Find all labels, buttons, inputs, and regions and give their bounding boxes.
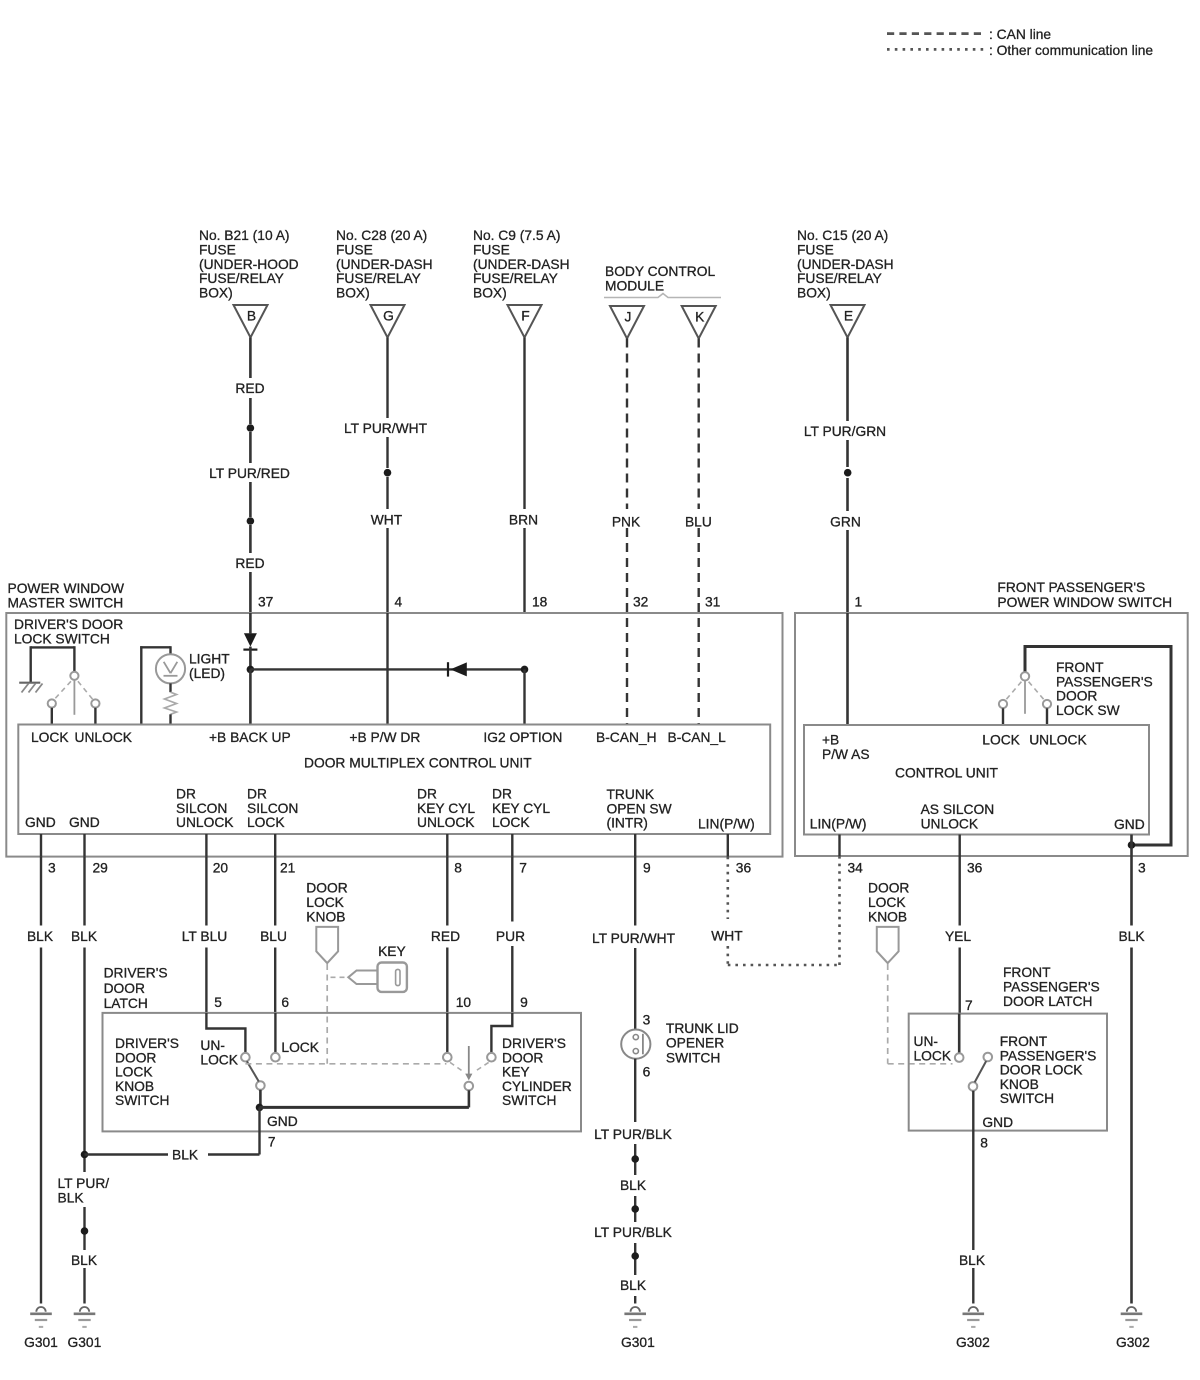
wire P/W DR into unit bbox=[386, 613, 388, 725]
label GND (FP latch) bbox=[982, 1115, 1013, 1130]
wire label LT PUR/RED bbox=[209, 466, 290, 481]
FP door lock switch dashed throw right bbox=[1029, 682, 1044, 700]
connector triangle K bbox=[682, 306, 716, 339]
svg-text:RED: RED bbox=[431, 929, 460, 944]
svg-text:LOCK: LOCK bbox=[200, 1053, 238, 1068]
wire label PNK bbox=[612, 515, 641, 530]
FP door lock switch LOCK contact bbox=[999, 700, 1007, 708]
junction trunk wire 3 bbox=[631, 1252, 639, 1260]
svg-text:LT PUR/WHT: LT PUR/WHT bbox=[592, 931, 676, 946]
svg-text:LT PUR/RED: LT PUR/RED bbox=[209, 466, 290, 481]
pin 21 label bbox=[280, 861, 295, 876]
ground symbol G301 (pin3) bbox=[30, 1307, 52, 1327]
svg-text:DOOR: DOOR bbox=[306, 881, 347, 896]
svg-text:KNOB: KNOB bbox=[868, 909, 907, 924]
diode in backup link bbox=[448, 662, 467, 676]
svg-text:LT PUR/WHT: LT PUR/WHT bbox=[344, 421, 428, 436]
svg-text:9: 9 bbox=[643, 861, 651, 876]
svg-text:G: G bbox=[383, 309, 394, 324]
svg-text:BLK: BLK bbox=[1118, 929, 1145, 944]
pin 7 label (latch GND) bbox=[268, 1135, 276, 1150]
svg-text:PASSENGER'S: PASSENGER'S bbox=[1003, 979, 1100, 994]
svg-text:LOCK: LOCK bbox=[492, 815, 530, 830]
svg-text:UNLOCK: UNLOCK bbox=[75, 730, 133, 745]
svg-text:UN-: UN- bbox=[914, 1034, 939, 1049]
wire pin 9 stem bbox=[634, 834, 636, 857]
key cylinder dashed throw left bbox=[450, 1062, 463, 1071]
ground name G302 (2) bbox=[1116, 1335, 1150, 1350]
wire label BLU (top) bbox=[685, 515, 712, 530]
wire PUR (pin7 to latch) bbox=[511, 857, 513, 1013]
fuse C28 label bbox=[336, 228, 433, 301]
svg-text:7: 7 bbox=[519, 861, 527, 876]
wire label BLK (pin3) bbox=[27, 929, 54, 944]
FP door lock switch UNLOCK contact bbox=[1043, 700, 1051, 708]
svg-text:G302: G302 bbox=[956, 1335, 990, 1350]
wire GND stem right box bbox=[1130, 835, 1133, 857]
wire fuse B to pin 37 bbox=[249, 338, 252, 614]
svg-text:KEY CYL: KEY CYL bbox=[492, 801, 550, 816]
svg-text:SWITCH: SWITCH bbox=[666, 1050, 720, 1065]
svg-text:DR: DR bbox=[492, 787, 512, 802]
svg-text:BOX): BOX) bbox=[473, 286, 507, 301]
diode on +B BACK UP feed bbox=[243, 613, 257, 669]
junction on wire G bbox=[384, 469, 392, 477]
wire label LT PUR/WHT (bottom) bbox=[592, 931, 676, 946]
svg-text:RED: RED bbox=[235, 556, 264, 571]
driver's door latch box bbox=[103, 1013, 582, 1132]
svg-text:FUSE: FUSE bbox=[473, 242, 510, 257]
pin 7 label bbox=[519, 861, 527, 876]
svg-text:3: 3 bbox=[48, 861, 56, 876]
svg-text:TRUNK LID: TRUNK LID bbox=[666, 1021, 739, 1036]
pin name AS SILCON UNLOCK bbox=[921, 802, 995, 832]
key cylinder dashed throw right bbox=[475, 1062, 489, 1071]
FP door lock switch neutral blade bbox=[1024, 681, 1026, 714]
pin name DR SILCON LOCK bbox=[247, 787, 298, 831]
light LED text bbox=[189, 652, 230, 681]
svg-text:LT PUR/GRN: LT PUR/GRN bbox=[804, 424, 886, 439]
pin 18 label bbox=[532, 595, 548, 610]
svg-text:BLK: BLK bbox=[58, 1190, 85, 1205]
pin name LOCK (right) bbox=[982, 733, 1020, 748]
svg-text:GND: GND bbox=[982, 1115, 1013, 1130]
wire pin6 to LOCK contact bbox=[274, 1013, 276, 1053]
svg-text:BLK: BLK bbox=[27, 929, 54, 944]
trunk lid opener switch label bbox=[666, 1021, 739, 1065]
driver latch common contact bbox=[256, 1081, 265, 1090]
wire label BLK (FP) bbox=[959, 1253, 986, 1268]
wire label WHT (top) bbox=[371, 513, 403, 528]
svg-text:BLK: BLK bbox=[620, 1178, 647, 1193]
junction on wire B (2) bbox=[247, 517, 255, 525]
svg-text:LOCK: LOCK bbox=[31, 730, 69, 745]
svg-text:FRONT: FRONT bbox=[1056, 660, 1104, 675]
svg-text:UNLOCK: UNLOCK bbox=[417, 815, 475, 830]
control unit title (right) bbox=[895, 766, 999, 781]
svg-text:DOOR: DOOR bbox=[104, 981, 145, 996]
svg-text:29: 29 bbox=[93, 861, 109, 876]
svg-text:LOCK: LOCK bbox=[306, 895, 344, 910]
wire label BRN bbox=[509, 513, 538, 528]
svg-text:+B: +B bbox=[822, 733, 839, 748]
svg-text:UNLOCK: UNLOCK bbox=[1029, 733, 1087, 748]
pin 20 label bbox=[213, 861, 229, 876]
svg-text:G301: G301 bbox=[24, 1335, 58, 1350]
CAN wire J (B-CAN_H) dashed bbox=[626, 339, 628, 725]
wire trunk switch to ground bbox=[634, 1059, 636, 1304]
svg-text:LIGHT: LIGHT bbox=[189, 652, 230, 667]
wire latch pin7 down bbox=[258, 1107, 260, 1154]
wire BLK (right box GND) bbox=[1130, 856, 1133, 1304]
wire LT BLU (pin20 to latch) bbox=[205, 857, 207, 1013]
wire pin 8 stem bbox=[446, 834, 448, 857]
wire label BLK (pin29) bbox=[71, 929, 98, 944]
pin 37 label bbox=[258, 595, 273, 610]
pin 36 label right bbox=[967, 861, 983, 876]
svg-text:WHT: WHT bbox=[371, 513, 403, 528]
svg-text:B-CAN_H: B-CAN_H bbox=[596, 730, 657, 745]
pin name DR SILCON UNLOCK bbox=[176, 787, 234, 831]
svg-text:7: 7 bbox=[965, 998, 973, 1013]
svg-text:36: 36 bbox=[736, 861, 752, 876]
door lock knob symbol (FP) bbox=[877, 927, 899, 963]
svg-text:LOCK: LOCK bbox=[281, 1040, 319, 1055]
ground name G301 (2) bbox=[68, 1335, 102, 1350]
svg-text:32: 32 bbox=[633, 595, 648, 610]
svg-text:UN-: UN- bbox=[200, 1038, 225, 1053]
svg-text:KEY: KEY bbox=[502, 1065, 530, 1080]
wire label BLK (trunk 1) bbox=[620, 1178, 647, 1193]
svg-text:BOX): BOX) bbox=[797, 286, 831, 301]
pin 9 label bbox=[643, 861, 651, 876]
wire fuse F to pin 18 bbox=[523, 338, 525, 614]
svg-text:POWER WINDOW SWITCH: POWER WINDOW SWITCH bbox=[997, 595, 1172, 610]
pin 32 label bbox=[633, 595, 648, 610]
svg-text:AS SILCON: AS SILCON bbox=[921, 802, 995, 817]
wire FP LOCK contact to unit bbox=[1002, 708, 1004, 725]
svg-text:GND: GND bbox=[25, 815, 56, 830]
GND bus wire (driver latch) bbox=[260, 1090, 469, 1107]
svg-text:LATCH: LATCH bbox=[104, 996, 148, 1011]
driver's door key cylinder switch label bbox=[502, 1036, 572, 1108]
pin name B-CAN_L bbox=[668, 730, 727, 745]
key symbol bbox=[348, 963, 407, 992]
power window master switch title bbox=[8, 581, 125, 611]
svg-text:LOCK SWITCH: LOCK SWITCH bbox=[14, 632, 110, 647]
wire latch GND to BLK bus bbox=[85, 1153, 260, 1155]
svg-text:IG2 OPTION: IG2 OPTION bbox=[483, 730, 562, 745]
LED bracket wire bbox=[140, 646, 170, 724]
svg-text:DR: DR bbox=[247, 787, 267, 802]
switch feed wire (right box) bbox=[1025, 645, 1171, 845]
pin 3 label right bbox=[1138, 861, 1146, 876]
pin name +B P/W DR bbox=[349, 730, 420, 745]
door lock knob symbol (driver) bbox=[316, 927, 338, 963]
wire label RED (1) bbox=[235, 381, 264, 396]
svg-text:B-CAN_L: B-CAN_L bbox=[668, 730, 727, 745]
wire label LT PUR/GRN bbox=[804, 424, 886, 439]
svg-text:FRONT: FRONT bbox=[1003, 965, 1051, 980]
svg-text:No. C9 (7.5 A): No. C9 (7.5 A) bbox=[473, 228, 560, 243]
legend other-communication-line text bbox=[989, 43, 1153, 58]
fuse G connector triangle bbox=[371, 305, 405, 338]
svg-text:G302: G302 bbox=[1116, 1335, 1150, 1350]
svg-text:LOCK: LOCK bbox=[115, 1065, 153, 1080]
wire label LT PUR/BLK (pin29) bbox=[58, 1176, 110, 1205]
svg-text:OPEN SW: OPEN SW bbox=[607, 801, 672, 816]
svg-text:BOX): BOX) bbox=[199, 286, 233, 301]
svg-text:: CAN line: : CAN line bbox=[989, 27, 1051, 42]
fuse B connector triangle bbox=[234, 305, 268, 338]
power window master switch box bbox=[6, 613, 782, 857]
front passenger's door latch box bbox=[909, 1014, 1107, 1131]
svg-text:MODULE: MODULE bbox=[605, 278, 664, 293]
fuse B21 label bbox=[199, 228, 299, 301]
front passenger's power window switch title bbox=[997, 580, 1172, 610]
svg-text:LT PUR/BLK: LT PUR/BLK bbox=[594, 1127, 672, 1142]
svg-text:3: 3 bbox=[1138, 861, 1146, 876]
pin 5 label bbox=[214, 995, 222, 1010]
pin 7 label (FP latch) bbox=[965, 998, 973, 1013]
label LOCK (driver latch) bbox=[281, 1040, 319, 1055]
front passenger's power window switch box bbox=[795, 613, 1188, 856]
FP latch second contact bbox=[984, 1053, 993, 1062]
svg-text:UNLOCK: UNLOCK bbox=[921, 817, 979, 832]
svg-text:DRIVER'S DOOR: DRIVER'S DOOR bbox=[14, 617, 123, 632]
legend CAN line text bbox=[989, 27, 1051, 42]
svg-text:21: 21 bbox=[280, 861, 295, 876]
svg-text:34: 34 bbox=[848, 861, 864, 876]
svg-text:GND: GND bbox=[69, 815, 100, 830]
svg-text:BLK: BLK bbox=[71, 1253, 98, 1268]
CAN wire K (B-CAN_L) dashed bbox=[698, 339, 700, 725]
driver's door lock switch label bbox=[14, 617, 123, 647]
wire pin 3 stem bbox=[40, 834, 42, 857]
svg-text:8: 8 bbox=[980, 1136, 988, 1151]
driver's door lock switch common contact bbox=[70, 672, 78, 680]
wire fuse G to pin 4 bbox=[386, 338, 388, 614]
pin name UNLOCK bbox=[75, 730, 133, 745]
svg-text:5: 5 bbox=[214, 995, 222, 1010]
svg-text:DRIVER'S: DRIVER'S bbox=[502, 1036, 566, 1051]
junction pin29 lower bbox=[81, 1227, 89, 1235]
svg-text:YEL: YEL bbox=[945, 929, 971, 944]
svg-text:F: F bbox=[521, 309, 529, 324]
svg-text:+B BACK UP: +B BACK UP bbox=[209, 730, 291, 745]
wire FP common to ground bbox=[972, 1091, 974, 1304]
wire pin10 to key contact bbox=[446, 1013, 448, 1053]
svg-text:P/W AS: P/W AS bbox=[822, 747, 870, 762]
junction GND bus (driver latch) bbox=[256, 1104, 264, 1112]
pin name DR KEY CYL LOCK bbox=[492, 787, 550, 831]
wire YEL (pin36 to FP latch) bbox=[959, 856, 961, 1014]
svg-text:DRIVER'S: DRIVER'S bbox=[115, 1036, 179, 1051]
wire fuse E to pin 1 bbox=[846, 338, 849, 614]
wire pin9 to key contact bbox=[491, 1013, 512, 1053]
svg-text:: Other communication line: : Other communication line bbox=[989, 43, 1153, 58]
driver's door lock switch bracket wire bbox=[31, 646, 75, 683]
front passenger's door lock knob switch label bbox=[1000, 1034, 1097, 1106]
FP latch common contact bbox=[969, 1082, 978, 1091]
svg-text:SWITCH: SWITCH bbox=[115, 1093, 169, 1108]
svg-text:CYLINDER: CYLINDER bbox=[502, 1079, 572, 1094]
wire label BLK (latch GND) bbox=[172, 1148, 199, 1163]
junction GND right box bbox=[1128, 841, 1136, 849]
svg-text:BODY CONTROL: BODY CONTROL bbox=[605, 264, 715, 279]
pin 10 label bbox=[456, 995, 472, 1010]
pin name DR KEY CYL UNLOCK bbox=[417, 787, 475, 831]
svg-text:36: 36 bbox=[967, 861, 983, 876]
svg-text:GND: GND bbox=[267, 1114, 298, 1129]
pin name IG2 OPTION bbox=[483, 730, 562, 745]
pin 31 label bbox=[705, 595, 720, 610]
svg-text:GND: GND bbox=[1114, 817, 1145, 832]
svg-text:MASTER SWITCH: MASTER SWITCH bbox=[8, 596, 124, 611]
wire label BLK (trunk 2) bbox=[620, 1278, 647, 1293]
junction IG2 node bbox=[521, 666, 529, 674]
pin name TRUNK OPEN SW (INTR) bbox=[607, 787, 672, 831]
wire label LT PUR/WHT (top) bbox=[344, 421, 428, 436]
svg-text:DOOR LOCK: DOOR LOCK bbox=[1000, 1063, 1084, 1078]
svg-text:KNOB: KNOB bbox=[306, 909, 345, 924]
key label bbox=[378, 944, 406, 959]
svg-text:(INTR): (INTR) bbox=[607, 816, 648, 831]
wire pin 36 stem right bbox=[959, 835, 961, 857]
wire label BLK (pin29 lower) bbox=[71, 1253, 98, 1268]
svg-text:LIN(P/W): LIN(P/W) bbox=[698, 817, 755, 832]
svg-text:No. C28 (20 A): No. C28 (20 A) bbox=[336, 228, 427, 243]
label UN-LOCK (driver latch) bbox=[200, 1038, 238, 1068]
svg-text:10: 10 bbox=[456, 995, 472, 1010]
driver's door lock switch LOCK contact bbox=[48, 699, 56, 707]
key dashed link bbox=[331, 976, 347, 978]
svg-text:FRONT: FRONT bbox=[1000, 1034, 1048, 1049]
svg-text:LOCK: LOCK bbox=[868, 895, 906, 910]
pin name LOCK bbox=[31, 730, 69, 745]
wire pin 1 into unit bbox=[846, 613, 849, 725]
wire pin5 to UNLOCK contact bbox=[206, 1013, 245, 1053]
pin 4 label bbox=[395, 595, 403, 610]
door multiplex control unit title bbox=[304, 756, 532, 771]
chassis ground (driver's door lock switch) bbox=[19, 683, 42, 693]
door lock knob label (driver) bbox=[306, 881, 347, 925]
svg-text:DR: DR bbox=[417, 787, 437, 802]
wire label LT PUR/BLK (trunk 1) bbox=[594, 1127, 672, 1142]
wire backup link horizontal bbox=[250, 668, 524, 670]
svg-text:DOOR: DOOR bbox=[1056, 689, 1097, 704]
pin 3 label bbox=[48, 861, 56, 876]
wire label BLK (right) bbox=[1118, 929, 1145, 944]
svg-text:J: J bbox=[625, 310, 632, 325]
FP door lock switch common contact bbox=[1021, 672, 1029, 680]
svg-text:KNOB: KNOB bbox=[1000, 1077, 1039, 1092]
ground symbol G302 (FP latch) bbox=[963, 1307, 985, 1327]
front passenger's door latch title bbox=[1003, 965, 1100, 1009]
light LED symbol bbox=[156, 654, 185, 683]
wire IG2 into unit bbox=[523, 669, 525, 724]
pin name GND (3) bbox=[25, 815, 56, 830]
svg-text:BOX): BOX) bbox=[336, 286, 370, 301]
svg-text:No. C15 (20 A): No. C15 (20 A) bbox=[797, 228, 888, 243]
wire pin 20 stem bbox=[205, 834, 207, 857]
connector triangle J bbox=[610, 306, 644, 339]
svg-text:GRN: GRN bbox=[830, 515, 861, 530]
door multiplex control unit box bbox=[18, 725, 770, 835]
svg-text:DOOR MULTIPLEX CONTROL UNIT: DOOR MULTIPLEX CONTROL UNIT bbox=[304, 756, 532, 771]
pin 29 label bbox=[93, 861, 109, 876]
svg-text:KNOB: KNOB bbox=[115, 1079, 154, 1094]
driver's door lock switch dashed throw right bbox=[78, 681, 93, 699]
wire LT PUR/WHT (pin9 down) bbox=[634, 857, 636, 1030]
ground name G301 (1) bbox=[24, 1335, 58, 1350]
svg-text:FRONT PASSENGER'S: FRONT PASSENGER'S bbox=[997, 580, 1145, 595]
svg-text:BLK: BLK bbox=[620, 1278, 647, 1293]
svg-text:G301: G301 bbox=[68, 1335, 102, 1350]
wire label WHT (LIN) bbox=[711, 929, 743, 944]
svg-text:RED: RED bbox=[235, 381, 264, 396]
wire label PUR bbox=[496, 929, 525, 944]
pin 1 label bbox=[855, 595, 863, 610]
svg-text:PUR: PUR bbox=[496, 929, 525, 944]
svg-text:LOCK: LOCK bbox=[914, 1049, 952, 1064]
pin 6 label bbox=[281, 995, 289, 1010]
svg-text:PASSENGER'S: PASSENGER'S bbox=[1056, 674, 1153, 689]
driver latch LOCK contact bbox=[271, 1053, 280, 1062]
svg-text:FUSE/RELAY: FUSE/RELAY bbox=[199, 271, 284, 286]
svg-text:7: 7 bbox=[268, 1135, 276, 1150]
junction trunk wire 1 bbox=[631, 1155, 639, 1163]
svg-text:BLU: BLU bbox=[260, 929, 287, 944]
driver key cyl UNLOCK contact bbox=[443, 1053, 452, 1062]
svg-text:FUSE/RELAY: FUSE/RELAY bbox=[797, 271, 882, 286]
pin 3 label (trunk) bbox=[643, 1013, 651, 1028]
fuse C9 label bbox=[473, 228, 570, 301]
wire RED (pin8 to latch) bbox=[446, 857, 448, 1013]
junction +B BACK UP node bbox=[247, 666, 255, 674]
svg-text:6: 6 bbox=[643, 1064, 651, 1079]
svg-text:KEY: KEY bbox=[378, 944, 406, 959]
wire pin 21 stem bbox=[274, 834, 276, 857]
svg-text:1: 1 bbox=[855, 595, 863, 610]
svg-text:E: E bbox=[844, 309, 853, 324]
svg-text:(UNDER-DASH: (UNDER-DASH bbox=[797, 257, 894, 272]
pin name GND (29) bbox=[69, 815, 100, 830]
svg-text:LOCK: LOCK bbox=[982, 733, 1020, 748]
svg-text:UNLOCK: UNLOCK bbox=[176, 815, 234, 830]
junction on wire E bbox=[844, 469, 852, 477]
wire BLU (pin21 to latch) bbox=[274, 857, 276, 1013]
pin name +B P/W AS bbox=[822, 733, 870, 763]
svg-text:PASSENGER'S: PASSENGER'S bbox=[1000, 1048, 1097, 1063]
pin name +B BACK UP bbox=[209, 730, 291, 745]
svg-text:FUSE/RELAY: FUSE/RELAY bbox=[336, 271, 421, 286]
pin 36 label left bbox=[736, 861, 752, 876]
pin 8 label bbox=[454, 861, 462, 876]
svg-text:LT PUR/: LT PUR/ bbox=[58, 1176, 110, 1191]
svg-text:(UNDER-DASH: (UNDER-DASH bbox=[473, 257, 570, 272]
svg-text:4: 4 bbox=[395, 595, 403, 610]
pin name GND (right) bbox=[1114, 817, 1145, 832]
svg-text:LT BLU: LT BLU bbox=[182, 929, 228, 944]
svg-text:DOOR: DOOR bbox=[502, 1050, 543, 1065]
svg-text:SILCON: SILCON bbox=[247, 801, 298, 816]
svg-text:LT PUR/BLK: LT PUR/BLK bbox=[594, 1225, 672, 1240]
pin name LIN(P/W) right bbox=[810, 817, 867, 832]
svg-text:DR: DR bbox=[176, 787, 196, 802]
ground symbol G302 (right) bbox=[1121, 1307, 1143, 1327]
wire GND 3 to ground bbox=[40, 857, 42, 1304]
